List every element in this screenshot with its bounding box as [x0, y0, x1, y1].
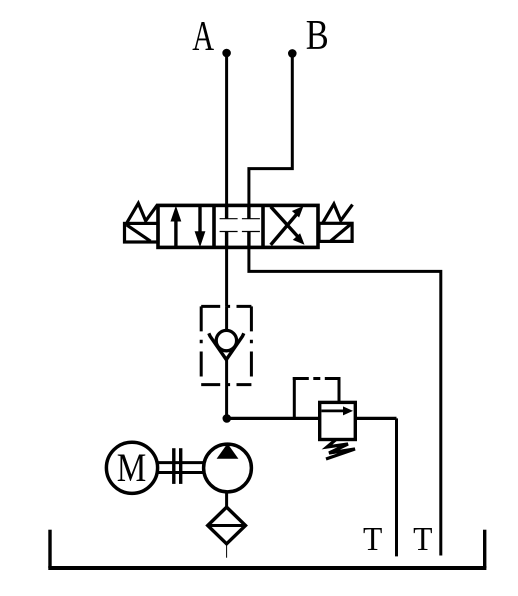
svg-text:T: T	[363, 521, 382, 558]
svg-text:A: A	[192, 12, 214, 59]
svg-text:B: B	[306, 13, 329, 59]
svg-text:T: T	[413, 521, 432, 558]
svg-text:M: M	[117, 445, 147, 490]
